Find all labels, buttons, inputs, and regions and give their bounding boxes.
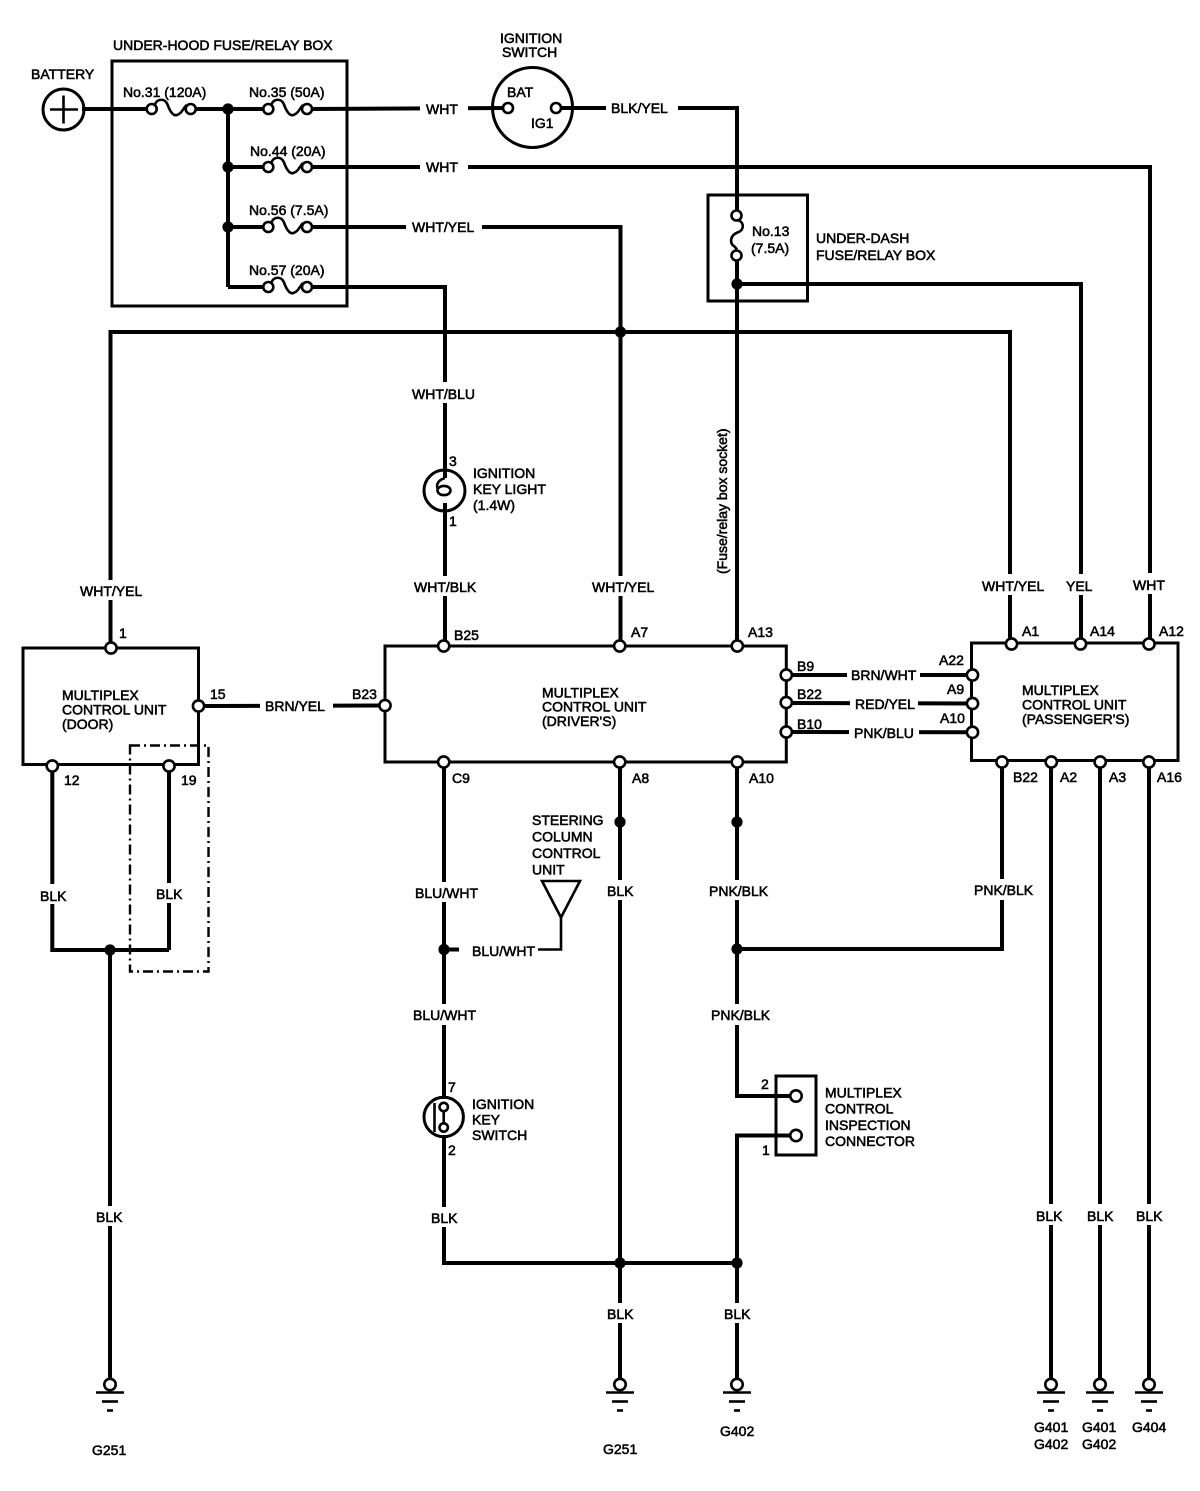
svg-text:A16: A16 [1157, 769, 1182, 785]
svg-text:BRN/YEL: BRN/YEL [265, 698, 325, 714]
wire driver A10 PNK/BLK down to inspection connector pin 2 [737, 768, 791, 1096]
multiplex control unit (passenger's) [972, 643, 1179, 761]
svg-text:PNK/BLK: PNK/BLK [974, 882, 1034, 898]
svg-text:CONTROL: CONTROL [825, 1101, 894, 1117]
wire label WHT/BLU [408, 382, 484, 403]
multiplex control unit (driver's) label [542, 685, 647, 730]
svg-text:12: 12 [64, 772, 80, 788]
multiplex control inspection connector [776, 1076, 816, 1155]
svg-text:No.31 (120A): No.31 (120A) [123, 84, 206, 100]
wire label BLK door 19 [153, 883, 185, 903]
svg-text:SWITCH: SWITCH [472, 1127, 527, 1143]
fuse No.13 (7.5A) [731, 211, 743, 261]
door terminal 15 [193, 700, 204, 711]
svg-text:G251: G251 [603, 1441, 637, 1457]
svg-text:G402: G402 [1034, 1436, 1068, 1452]
junction dot fuse box row3 [222, 221, 233, 232]
svg-text:WHT/YEL: WHT/YEL [982, 578, 1044, 594]
wire label BRN/WHT [847, 664, 920, 685]
svg-text:A12: A12 [1159, 623, 1184, 639]
svg-text:(1.4W): (1.4W) [473, 497, 515, 513]
wire label BLK door ground [93, 1206, 127, 1226]
passenger terminal A9 [967, 698, 978, 709]
svg-text:G402: G402 [1082, 1436, 1116, 1452]
svg-text:KEY LIGHT: KEY LIGHT [473, 481, 546, 497]
svg-text:G251: G251 [92, 1442, 126, 1458]
junction dot A8 at bottom bus [614, 1257, 625, 1268]
wire PNK/BLK tie to passenger B22 [737, 764, 1002, 949]
wire fuse box junction column [226, 109, 230, 287]
svg-text:A9: A9 [947, 681, 964, 697]
driver terminal B23 [379, 700, 390, 711]
svg-text:G401: G401 [1034, 1419, 1068, 1435]
svg-text:SWITCH: SWITCH [502, 44, 557, 60]
wire driver B9 to passenger A22 BRN/WHT [790, 673, 968, 677]
svg-text:BLK: BLK [724, 1306, 751, 1322]
svg-text:WHT/BLU: WHT/BLU [412, 386, 475, 402]
ground G401/G402 A3 [1086, 1379, 1114, 1411]
svg-text:1: 1 [119, 625, 127, 641]
wire driver C9 BLU/WHT down to ignition key switch [442, 768, 446, 1099]
svg-text:19: 19 [181, 772, 197, 788]
svg-text:B9: B9 [797, 658, 814, 674]
wire driver A8 BLK down to G251 ground [618, 768, 622, 1379]
svg-text:IGNITION: IGNITION [472, 1096, 534, 1112]
svg-text:UNDER-HOOD FUSE/RELAY BOX: UNDER-HOOD FUSE/RELAY BOX [113, 37, 333, 53]
ground G401/G402 A2 [1037, 1379, 1065, 1411]
wire fuse No.57 output WHT/BLU to ignition key light [310, 287, 445, 478]
junction dot A10 at PNK/BLK tie [731, 943, 742, 954]
svg-text:BLK: BLK [96, 1209, 123, 1225]
svg-text:G402: G402 [720, 1423, 754, 1439]
wire fuse No.35 output to ignition switch BAT (WHT) [310, 108, 506, 109]
driver terminal A10 [732, 756, 743, 767]
driver terminal B10 [781, 726, 792, 737]
wire junction to fuse No.44 [228, 165, 265, 169]
wire fuse No.31 to fuse No.35 with junction [194, 107, 265, 111]
svg-text:(DOOR): (DOOR) [62, 716, 113, 732]
svg-text:UNIT: UNIT [532, 862, 565, 878]
svg-text:IG1: IG1 [531, 115, 554, 131]
fuse No.31 (120A) [147, 100, 196, 115]
wire fuse No.13 output YEL to passenger A14 column [737, 284, 1081, 643]
svg-text:WHT/YEL: WHT/YEL [80, 583, 142, 599]
wire label WHT/YEL A7 column [588, 576, 656, 596]
wire driver B22 to passenger A9 RED/YEL [790, 701, 968, 706]
wire label BLK A8 [604, 880, 637, 900]
svg-text:G404: G404 [1132, 1419, 1166, 1435]
wire label RED/YEL [850, 693, 918, 714]
passenger terminal A3 [1095, 756, 1106, 767]
passenger terminal A16 [1143, 756, 1154, 767]
wire label BLK door 12 [38, 884, 70, 904]
ground G251 door [96, 1379, 124, 1411]
wire passenger A16 BLK to ground [1147, 764, 1151, 1379]
svg-text:BLU/WHT: BLU/WHT [413, 1007, 476, 1023]
wire inspection connector pin 1 to bottom bus [737, 1136, 791, 1379]
junction dot C9 column at steering stub [438, 944, 449, 955]
svg-text:RED/YEL: RED/YEL [855, 696, 915, 712]
svg-text:(PASSENGER'S): (PASSENGER'S) [1022, 711, 1129, 727]
wire junction to fuse No.57 [228, 285, 265, 289]
wire label YEL A14 column [1062, 574, 1098, 595]
wire label PNK/BLU [849, 722, 919, 743]
junction dot door ground bus [104, 944, 115, 955]
under-dash fuse/relay box [708, 195, 808, 301]
svg-text:No.56 (7.5A): No.56 (7.5A) [249, 202, 328, 218]
wire label BLK pin1 column [721, 1303, 754, 1323]
svg-text:A3: A3 [1109, 769, 1126, 785]
svg-text:WHT: WHT [1133, 577, 1165, 593]
svg-text:BLK: BLK [607, 883, 634, 899]
fuse No.44 (20A) [263, 158, 312, 173]
svg-text:No.35 (50A): No.35 (50A) [249, 84, 324, 100]
wire key light to driver B25 WHT/BLK [443, 503, 447, 646]
door terminal 12 [47, 760, 58, 771]
wire label BLK key switch [428, 1207, 461, 1227]
wire fuse No.44 output WHT to passenger A12 column [310, 167, 1150, 643]
svg-text:BRN/WHT: BRN/WHT [851, 667, 917, 683]
ignition switch [493, 68, 573, 148]
wire label BLK/YEL [606, 96, 678, 117]
svg-text:YEL: YEL [1066, 578, 1093, 594]
wire fuse No.13 output down to driver A13 [735, 258, 739, 646]
wire key switch to bottom bus BLK [444, 1135, 737, 1263]
wire fuse No.56 output WHT/YEL down to driver A7 [310, 227, 621, 646]
svg-text:15: 15 [210, 686, 226, 702]
svg-text:1: 1 [762, 1142, 770, 1158]
multiplex control inspection connector label [825, 1085, 915, 1150]
under-hood fuse/relay box [112, 61, 347, 306]
svg-text:BLK: BLK [1087, 1208, 1114, 1224]
wire door 12 to ground bus [52, 768, 169, 950]
svg-text:BLK: BLK [1036, 1208, 1063, 1224]
passenger terminal B22 [996, 756, 1007, 767]
svg-text:A7: A7 [631, 624, 648, 640]
svg-text:BLK: BLK [40, 888, 67, 904]
wire label WHT/YEL A1 column [978, 574, 1046, 595]
svg-text:C9: C9 [452, 770, 470, 786]
fuse No.35 (50A) [263, 100, 312, 115]
multiplex control unit (driver's) [385, 646, 786, 762]
ignition key light label [473, 465, 546, 513]
fuse No.56 (7.5A) [263, 218, 312, 233]
steering column control unit label [532, 812, 604, 878]
svg-text:A1: A1 [1022, 623, 1039, 639]
svg-text:WHT/YEL: WHT/YEL [412, 219, 474, 235]
svg-text:BLK/YEL: BLK/YEL [611, 100, 668, 116]
svg-text:PNK/BLK: PNK/BLK [711, 1007, 771, 1023]
svg-text:CONNECTOR: CONNECTOR [825, 1133, 915, 1149]
battery B1 [43, 89, 84, 130]
passenger terminal A12 [1143, 638, 1154, 649]
driver terminal C9 [438, 756, 449, 767]
wire label PNK/BLK A10 lower [708, 1004, 772, 1025]
svg-text:2: 2 [448, 1142, 456, 1158]
wire battery to fuse No.31 [82, 107, 149, 111]
junction dot fuse box row1 [222, 103, 233, 114]
junction dot WHT/YEL bus [615, 326, 626, 337]
svg-text:COLUMN: COLUMN [532, 829, 593, 845]
svg-text:MULTIPLEX: MULTIPLEX [825, 1085, 902, 1101]
svg-text:(7.5A): (7.5A) [751, 240, 789, 256]
driver terminal A7 [614, 640, 625, 651]
svg-text:KEY: KEY [472, 1112, 501, 1128]
wire stub junction to BLU/WHT label [444, 948, 459, 952]
junction dot fuse box row2 [222, 161, 233, 172]
svg-text:INSPECTION: INSPECTION [825, 1117, 911, 1133]
passenger terminal A22 [967, 669, 978, 680]
svg-text:No.44 (20A): No.44 (20A) [250, 143, 325, 159]
svg-text:2: 2 [761, 1076, 769, 1092]
dashed option box around door pin 19 wire [130, 746, 209, 972]
ground G401/G402 A2 label [1034, 1419, 1068, 1452]
junction dot under-dash fuse output [731, 278, 742, 289]
svg-text:IGNITION: IGNITION [473, 465, 535, 481]
driver terminal B25 [438, 640, 449, 651]
svg-text:WHT: WHT [426, 101, 458, 117]
svg-text:STEERING: STEERING [532, 812, 604, 828]
driver terminal A8 [614, 756, 625, 767]
svg-text:B22: B22 [797, 686, 822, 702]
ignition key switch [424, 1097, 463, 1136]
wire label BRN/YEL [260, 694, 333, 716]
svg-text:BLK: BLK [1136, 1208, 1163, 1224]
svg-text:(DRIVER'S): (DRIVER'S) [542, 713, 616, 729]
junction dot A10 column upper [731, 816, 742, 827]
door terminal 1 [105, 642, 116, 653]
svg-text:WHT/YEL: WHT/YEL [592, 579, 654, 595]
wire label PNK/BLK B22 column [971, 879, 1035, 900]
ground G401/G402 A3 label [1082, 1419, 1116, 1452]
steering column control unit [538, 881, 580, 950]
ground G251 driver [606, 1379, 634, 1411]
wire label BLK A16 [1133, 1204, 1167, 1225]
passenger terminal A14 [1075, 638, 1086, 649]
svg-text:WHT/BLK: WHT/BLK [414, 579, 477, 595]
svg-text:BLK: BLK [607, 1306, 634, 1322]
svg-text:A8: A8 [632, 770, 649, 786]
svg-text:7: 7 [448, 1079, 456, 1095]
svg-text:PNK/BLK: PNK/BLK [709, 883, 769, 899]
multiplex control unit (door) [23, 648, 199, 765]
wire label WHT/YEL row3 [406, 215, 482, 236]
svg-text:G401: G401 [1082, 1419, 1116, 1435]
wire junction to fuse No.56 [228, 225, 265, 229]
passenger terminal A10 [967, 727, 978, 738]
svg-text:B10: B10 [797, 716, 822, 732]
svg-text:A22: A22 [939, 652, 964, 668]
wire ignition switch IG1 BLK/YEL to under-dash fuse No.13 [558, 108, 737, 213]
wire passenger A3 BLK to ground [1098, 764, 1102, 1379]
svg-text:No.57 (20A): No.57 (20A) [249, 262, 324, 278]
svg-text:BLU/WHT: BLU/WHT [472, 943, 535, 959]
fuse No.57 (20A) [263, 278, 312, 293]
svg-text:A13: A13 [748, 624, 773, 640]
svg-text:BLK: BLK [431, 1210, 458, 1226]
svg-text:FUSE/RELAY BOX: FUSE/RELAY BOX [816, 247, 936, 263]
ground G402 [723, 1379, 751, 1411]
ground G404 [1135, 1379, 1163, 1411]
wire driver B10 to passenger A10 PNK/BLU [790, 730, 968, 734]
passenger terminal A1 [1006, 638, 1017, 649]
svg-text:A2: A2 [1060, 769, 1077, 785]
svg-text:BAT: BAT [507, 84, 534, 100]
wire label PNK/BLK A10 [706, 880, 770, 900]
wire passenger A2 BLK to ground [1049, 764, 1053, 1379]
wire label BLK A2 [1033, 1204, 1067, 1225]
fuse No.13 value label [751, 223, 790, 256]
passenger terminal A2 [1046, 756, 1057, 767]
svg-text:(Fuse/relay box socket): (Fuse/relay box socket) [714, 429, 730, 575]
driver terminal A13 [732, 640, 743, 651]
svg-text:PNK/BLU: PNK/BLU [854, 725, 914, 741]
svg-text:UNDER-DASH: UNDER-DASH [816, 230, 909, 246]
wire label WHT row2 [420, 156, 468, 176]
multiplex control unit (door) label [62, 687, 167, 732]
under-dash fuse/relay box label [816, 230, 936, 263]
svg-text:B22: B22 [1013, 769, 1038, 785]
wire door 19 to ground bus [167, 768, 171, 950]
svg-text:B23: B23 [352, 686, 377, 702]
svg-text:BLU/WHT: BLU/WHT [415, 885, 478, 901]
svg-text:BATTERY: BATTERY [31, 66, 95, 82]
svg-text:A10: A10 [749, 770, 774, 786]
wire label WHT A12 column [1128, 573, 1172, 594]
svg-text:A10: A10 [940, 710, 965, 726]
svg-text:BLK: BLK [156, 886, 183, 902]
svg-text:A14: A14 [1090, 623, 1115, 639]
svg-text:WHT: WHT [426, 159, 458, 175]
ignition key light (1.4W) [424, 470, 465, 511]
junction dot A8 column upper [614, 816, 625, 827]
wire label WHT/BLK [410, 576, 478, 596]
wire door 15 to driver B23 BRN/YEL [204, 704, 385, 709]
wire label WHT row1 [420, 98, 468, 118]
wire label BLU/WHT C9 upper [411, 882, 479, 902]
wire door ground bus to G251 [108, 950, 112, 1379]
svg-text:B25: B25 [454, 627, 479, 643]
wire label BLK A8 lower [604, 1303, 637, 1323]
svg-text:3: 3 [449, 453, 457, 469]
wire bus WHT/YEL door terminal 1 to passenger A1 [111, 332, 1011, 648]
svg-text:1: 1 [449, 513, 457, 529]
multiplex control unit (passenger's) label [1022, 682, 1129, 727]
ignition key switch label [472, 1096, 534, 1143]
junction dot pin1 column at bottom bus [731, 1257, 742, 1268]
svg-text:CONTROL: CONTROL [532, 845, 601, 861]
driver terminal B22 [781, 697, 792, 708]
wire label BLU/WHT C9 lower [409, 1004, 477, 1025]
wire label WHT/YEL door column [76, 580, 146, 600]
door terminal 19 [163, 760, 174, 771]
driver terminal B9 [781, 669, 792, 680]
svg-text:No.13: No.13 [752, 223, 790, 239]
wire label BLK A3 [1084, 1204, 1118, 1225]
